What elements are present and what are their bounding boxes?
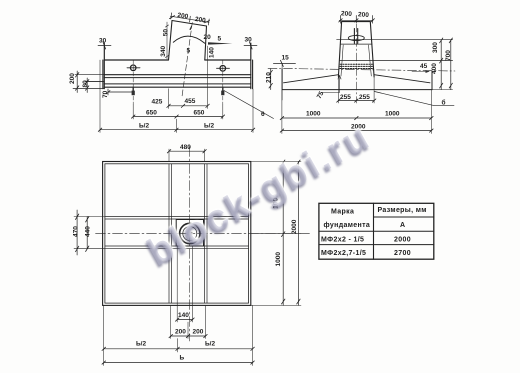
svg-text:480: 480 [180,144,191,151]
svg-text:Ь/2: Ь/2 [205,341,215,348]
svg-text:6: 6 [261,111,265,118]
svg-text:МФ2х2,7-1/5: МФ2х2,7-1/5 [321,250,366,257]
svg-text:2000: 2000 [394,237,411,244]
svg-text:255: 255 [359,94,370,101]
svg-text:5: 5 [218,36,222,43]
svg-text:А: А [400,222,405,229]
svg-text:425: 425 [152,99,163,106]
svg-text:200: 200 [177,12,189,21]
svg-text:Ь/2: Ь/2 [139,123,149,130]
svg-text:300: 300 [432,42,439,53]
svg-text:200: 200 [69,73,76,84]
svg-text:фундамента: фундамента [324,222,371,229]
svg-text:400: 400 [431,63,438,74]
svg-text:МФ2х2 - 1/5: МФ2х2 - 1/5 [321,237,364,244]
svg-text:470: 470 [73,226,80,237]
svg-text:140: 140 [178,312,189,319]
svg-text:340: 340 [160,45,167,56]
svg-text:Ь/2: Ь/2 [136,341,146,348]
svg-text:650: 650 [194,110,205,117]
svg-text:650: 650 [146,110,157,117]
svg-text:1000: 1000 [385,111,400,118]
svg-text:45: 45 [420,63,428,70]
svg-text:Размеры, мм: Размеры, мм [378,207,427,214]
svg-text:210: 210 [266,72,273,83]
svg-text:Ь: Ь [180,355,185,362]
svg-text:455: 455 [185,98,196,105]
svg-text:140: 140 [209,47,216,58]
svg-text:30: 30 [99,38,107,45]
svg-text:2700: 2700 [394,250,411,257]
svg-text:200: 200 [341,10,353,18]
svg-text:Ь/2: Ь/2 [204,123,214,130]
svg-text:б: б [442,99,446,107]
svg-text:200: 200 [193,329,204,336]
svg-text:700: 700 [445,50,452,61]
svg-text:20: 20 [204,34,212,41]
svg-text:50: 50 [163,29,170,37]
svg-text:30: 30 [245,37,253,44]
svg-text:2000: 2000 [291,219,298,234]
svg-text:1000: 1000 [306,111,321,118]
svg-text:200: 200 [194,16,206,25]
svg-text:75: 75 [316,90,326,100]
svg-text:15: 15 [282,55,290,62]
svg-text:Марка: Марка [331,209,354,216]
svg-text:200: 200 [358,11,370,19]
svg-text:255: 255 [340,94,351,101]
svg-text:70: 70 [102,90,109,98]
svg-text:200: 200 [175,329,186,336]
svg-text:80: 80 [82,80,89,88]
svg-text:440: 440 [85,226,92,237]
svg-text:5: 5 [187,48,191,55]
svg-text:1000: 1000 [275,252,282,267]
